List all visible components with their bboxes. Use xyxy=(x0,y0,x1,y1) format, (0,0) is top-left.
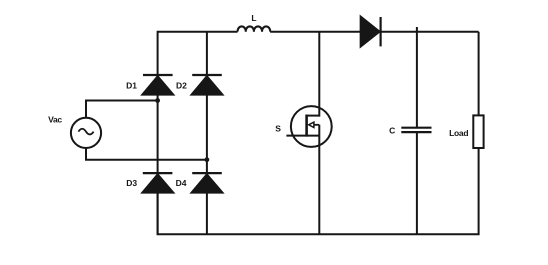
source Vac circle xyxy=(71,118,101,148)
diode D2 cathode bar xyxy=(192,74,222,76)
inductor L xyxy=(238,26,271,31)
svg-text:Vac: Vac xyxy=(48,115,62,125)
wire mosfet source vertical xyxy=(318,125,320,235)
wire load top lead xyxy=(478,32,480,116)
diode D1 cathode bar xyxy=(143,74,173,76)
wire top rail middle (inductor to boost diode) xyxy=(270,31,361,33)
node junction dot at D4 anode xyxy=(205,157,210,162)
wire bottom rail xyxy=(158,148,479,234)
svg-text:D2: D2 xyxy=(176,80,187,90)
wire top rail left (bridge top to inductor) xyxy=(158,32,238,100)
svg-text:D1: D1 xyxy=(126,80,137,90)
diode D3 (triangle) xyxy=(142,174,174,193)
capacitor C top plate xyxy=(401,127,431,129)
node junction dot at D1 anode xyxy=(155,98,160,103)
wire Vac top lead xyxy=(86,101,158,118)
svg-text:D4: D4 xyxy=(176,178,187,188)
wire capacitor top lead xyxy=(416,27,418,127)
svg-text:Load: Load xyxy=(449,128,468,138)
diode D4 (triangle) xyxy=(191,174,223,193)
diode D2 (triangle) xyxy=(191,76,223,95)
wire mosfet drain vertical xyxy=(318,32,320,117)
svg-text:S: S xyxy=(275,124,281,134)
diode D5 boost (triangle) xyxy=(360,16,380,47)
diode D1 (triangle) xyxy=(142,76,174,95)
svg-text:D3: D3 xyxy=(126,178,137,188)
wire capacitor bottom lead xyxy=(416,133,418,235)
mosfet body arrow line xyxy=(313,124,319,126)
load resistor box xyxy=(473,115,483,148)
transistor S mosfet body circle xyxy=(291,106,332,147)
diode D4 cathode bar xyxy=(192,172,222,174)
capacitor C bottom plate xyxy=(401,131,431,133)
diode D3 cathode bar xyxy=(143,172,173,174)
mosfet top bar xyxy=(306,115,320,117)
wire Vac bottom lead xyxy=(86,148,207,160)
diode D5 cathode bar xyxy=(380,17,382,46)
wire bridge right vertical (through D2 and D4) xyxy=(206,32,208,235)
mosfet body arrow head xyxy=(309,122,314,127)
mosfet gate plate xyxy=(305,115,308,137)
wire top rail right (boost diode to output corner) xyxy=(381,31,479,33)
svg-text:L: L xyxy=(251,13,256,23)
source Vac sine mark xyxy=(78,129,93,135)
svg-text:C: C xyxy=(389,125,395,135)
wire bridge left vertical (through D1 and D3) xyxy=(157,100,159,234)
mosfet gate lead and source bar xyxy=(286,135,319,137)
